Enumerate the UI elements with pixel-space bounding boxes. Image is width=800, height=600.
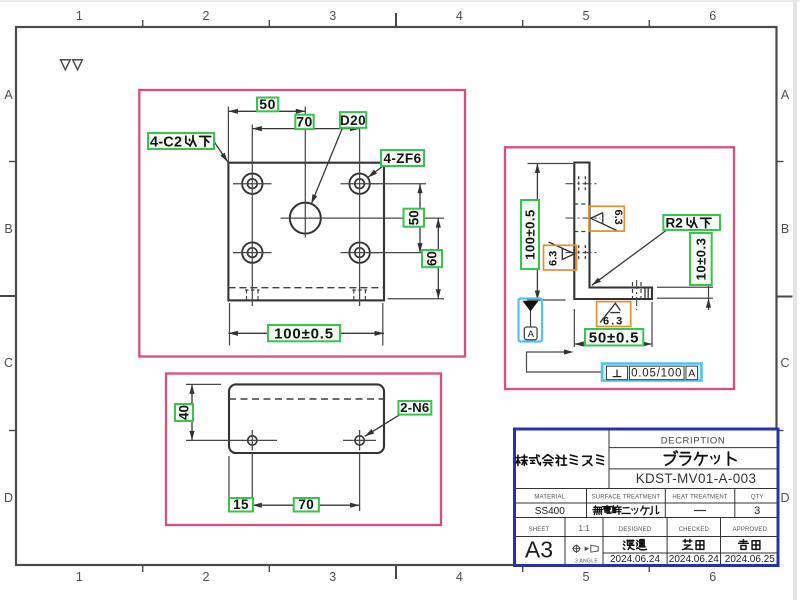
svg-text:A: A [688,367,695,379]
svg-text:4-C2: 4-C2 [150,134,182,150]
svg-text:1:1: 1:1 [578,524,590,533]
svg-text:SS400: SS400 [535,506,565,517]
svg-text:4-ZF6: 4-ZF6 [383,151,421,166]
svg-text:6.3: 6.3 [612,210,624,225]
svg-text:SURFACE TREATMENT: SURFACE TREATMENT [592,494,661,500]
svg-text:2: 2 [203,570,210,584]
svg-text:50±0.5: 50±0.5 [589,330,640,347]
svg-text:40: 40 [177,405,192,420]
svg-text:2: 2 [203,9,210,23]
svg-text:QTY: QTY [751,494,764,500]
svg-text:0.05/100: 0.05/100 [631,367,682,379]
svg-text:100±0.5: 100±0.5 [523,209,538,259]
svg-text:SHEET: SHEET [529,527,550,533]
svg-text:60: 60 [425,251,440,266]
svg-text:D: D [4,491,13,505]
svg-text:2024.06.24: 2024.06.24 [669,554,719,565]
svg-text:C: C [780,356,789,370]
svg-text:2-N6: 2-N6 [400,400,429,415]
svg-text:R2: R2 [666,215,683,230]
svg-text:5: 5 [583,570,590,584]
svg-text:70: 70 [296,114,313,130]
svg-text:4: 4 [456,9,463,23]
svg-text:100±0.5: 100±0.5 [274,325,334,342]
svg-text:2024.06.24: 2024.06.24 [610,554,660,565]
svg-text:4: 4 [456,570,463,584]
svg-text:6: 6 [709,9,716,23]
svg-text:1: 1 [76,570,83,584]
svg-text:A: A [528,329,535,340]
svg-text:2024.06.25: 2024.06.25 [725,554,775,565]
svg-text:HEAT TREATMENT: HEAT TREATMENT [672,494,728,500]
svg-text:CHECKED: CHECKED [679,527,710,533]
svg-text:APPROVED: APPROVED [733,527,768,533]
svg-text:A3: A3 [525,537,553,563]
svg-text:KDST-MV01-A-003: KDST-MV01-A-003 [636,471,757,486]
svg-text:6: 6 [709,570,716,584]
svg-text:1: 1 [76,9,83,23]
svg-text:3: 3 [329,9,336,23]
svg-text:DECRIPTION: DECRIPTION [661,436,726,447]
svg-text:15: 15 [233,497,249,512]
svg-text:3: 3 [329,570,336,584]
svg-text:D: D [780,491,789,505]
svg-text:6.3: 6.3 [548,251,560,266]
svg-text:10±0.3: 10±0.3 [693,238,708,281]
svg-text:50: 50 [259,96,276,112]
svg-text:3 ANGLE: 3 ANGLE [575,559,598,565]
svg-text:5: 5 [583,9,590,23]
svg-text:B: B [781,222,789,236]
svg-text:MATERIAL: MATERIAL [534,494,565,500]
svg-text:D20: D20 [340,113,366,128]
svg-text:B: B [4,222,12,236]
svg-text:3: 3 [754,505,760,517]
svg-text:C: C [4,356,13,370]
svg-text:70: 70 [298,497,314,512]
svg-text:A: A [4,88,13,102]
svg-text:A: A [781,88,790,102]
svg-text:50: 50 [406,210,421,225]
svg-text:DESIGNED: DESIGNED [619,527,652,533]
